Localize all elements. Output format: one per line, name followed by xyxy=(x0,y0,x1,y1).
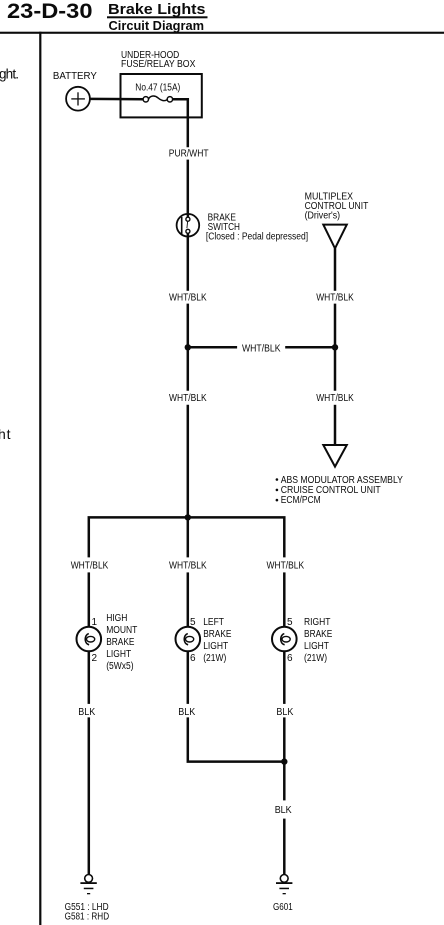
svg-text:LIGHT: LIGHT xyxy=(106,649,131,660)
svg-text:BRAKE: BRAKE xyxy=(203,629,232,640)
svg-text:(21W): (21W) xyxy=(203,653,226,664)
svg-text:BLK: BLK xyxy=(178,707,195,718)
svg-text:BLK: BLK xyxy=(78,707,95,718)
svg-text:WHT/BLK: WHT/BLK xyxy=(169,292,207,303)
svg-text:2: 2 xyxy=(92,653,98,664)
svg-text:WHT/BLK: WHT/BLK xyxy=(169,393,207,404)
svg-text:5: 5 xyxy=(190,617,196,628)
svg-text:LIGHT: LIGHT xyxy=(304,641,329,652)
svg-text:(21W): (21W) xyxy=(304,653,327,664)
svg-text:G581 : RHD: G581 : RHD xyxy=(65,911,110,922)
svg-text:Circuit Diagram: Circuit Diagram xyxy=(109,18,205,33)
svg-text:(Driver's): (Driver's) xyxy=(305,210,341,221)
svg-text:ht: ht xyxy=(0,426,11,442)
svg-text:G601: G601 xyxy=(273,902,293,913)
svg-text:Brake Lights: Brake Lights xyxy=(108,2,206,18)
svg-text:RIGHT: RIGHT xyxy=(304,617,330,628)
svg-text:WHT/BLK: WHT/BLK xyxy=(316,393,354,404)
svg-text:WHT/BLK: WHT/BLK xyxy=(169,561,207,572)
svg-text:WHT/BLK: WHT/BLK xyxy=(267,561,305,572)
svg-text:BATTERY: BATTERY xyxy=(53,71,97,82)
svg-text:LIGHT: LIGHT xyxy=(203,641,228,652)
svg-text:BRAKE: BRAKE xyxy=(106,637,135,648)
svg-text:BRAKE: BRAKE xyxy=(304,629,333,640)
svg-text:WHT/BLK: WHT/BLK xyxy=(316,292,354,303)
svg-text:BLK: BLK xyxy=(275,805,292,816)
svg-text:6: 6 xyxy=(287,653,293,664)
svg-text:1: 1 xyxy=(92,617,98,628)
svg-text:WHT/BLK: WHT/BLK xyxy=(242,343,281,354)
svg-text:BLK: BLK xyxy=(276,707,293,718)
svg-text:[Closed : Pedal depressed]: [Closed : Pedal depressed] xyxy=(206,231,308,242)
svg-text:No.47 (15A): No.47 (15A) xyxy=(135,83,180,94)
svg-text:23-D-30: 23-D-30 xyxy=(7,0,93,23)
svg-text:HIGH: HIGH xyxy=(106,613,127,624)
svg-text:(5Wx5): (5Wx5) xyxy=(106,661,133,672)
svg-text:FUSE/RELAY BOX: FUSE/RELAY BOX xyxy=(121,59,196,70)
svg-text:6: 6 xyxy=(190,653,196,664)
svg-text:PUR/WHT: PUR/WHT xyxy=(169,148,209,159)
svg-text:WHT/BLK: WHT/BLK xyxy=(71,561,109,572)
svg-text:LEFT: LEFT xyxy=(203,617,224,628)
svg-text:MOUNT: MOUNT xyxy=(106,625,137,636)
svg-text:5: 5 xyxy=(287,617,293,628)
svg-text:ght.: ght. xyxy=(0,67,19,82)
svg-text:ECM/PCM: ECM/PCM xyxy=(281,495,321,506)
